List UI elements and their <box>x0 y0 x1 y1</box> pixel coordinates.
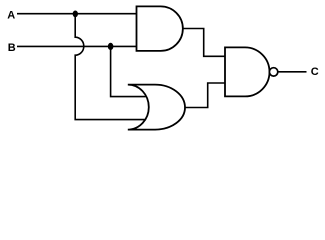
junction dot node B <box>108 43 114 50</box>
wire B <box>17 45 136 47</box>
wire OR output to NAND lower input <box>186 83 226 108</box>
wire from node B down to OR gate upper input <box>111 46 146 96</box>
wire from node A down with hop over wire B to OR gate lower input <box>75 14 146 120</box>
OR gate <box>128 85 185 130</box>
svg-text:A: A <box>7 9 15 21</box>
NAND gate <box>225 47 278 96</box>
wire AND output to NAND upper input <box>183 29 225 57</box>
svg-text:B: B <box>8 42 16 54</box>
junction dot node A <box>73 11 78 18</box>
AND gate <box>137 6 183 51</box>
svg-text:C: C <box>311 66 319 78</box>
wire A <box>17 13 136 15</box>
wire NAND output <box>278 71 307 73</box>
